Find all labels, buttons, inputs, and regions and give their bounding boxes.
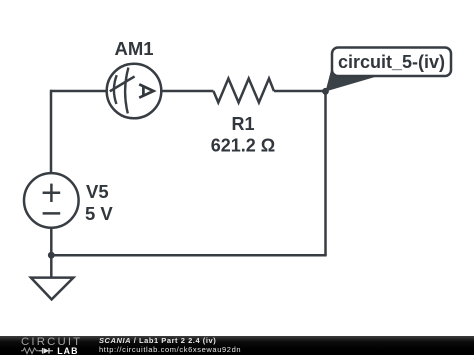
node junction dot bottom-left (48, 252, 55, 259)
callout bubble circuit_5-(iv) (332, 48, 451, 77)
svg-text:621.2 Ω: 621.2 Ω (211, 136, 275, 156)
resistor R1 (213, 79, 274, 103)
wire ammeter to resistor (161, 90, 213, 93)
ammeter AM1 (107, 64, 162, 119)
svg-text:V5: V5 (86, 181, 109, 202)
callout tail (326, 65, 381, 92)
CircuitLab logo LAB (57, 347, 78, 355)
footer url text (99, 346, 241, 354)
CircuitLab logo wordmark CIRCUIT (21, 337, 82, 348)
wire left vertical (50, 90, 53, 174)
node A junction dot top-right (322, 88, 329, 95)
footer bar (0, 336, 474, 355)
CircuitLab logo resistor-diode squiggle (21, 347, 57, 355)
voltage source V5 (24, 173, 79, 228)
wire bottom horizontal (51, 254, 326, 257)
wire resistor to node A (274, 90, 326, 93)
svg-text:5 V: 5 V (85, 203, 113, 224)
ammeter letter A (139, 84, 153, 97)
svg-text:R1: R1 (231, 114, 254, 134)
ground (31, 278, 74, 300)
wire voltage source to ground node (50, 228, 53, 278)
wire top-left horizontal (51, 90, 107, 93)
svg-text:circuit_5-(iv): circuit_5-(iv) (338, 52, 445, 72)
svg-text:AM1: AM1 (115, 38, 154, 59)
wire right vertical (324, 91, 327, 255)
footer title text (99, 337, 216, 345)
